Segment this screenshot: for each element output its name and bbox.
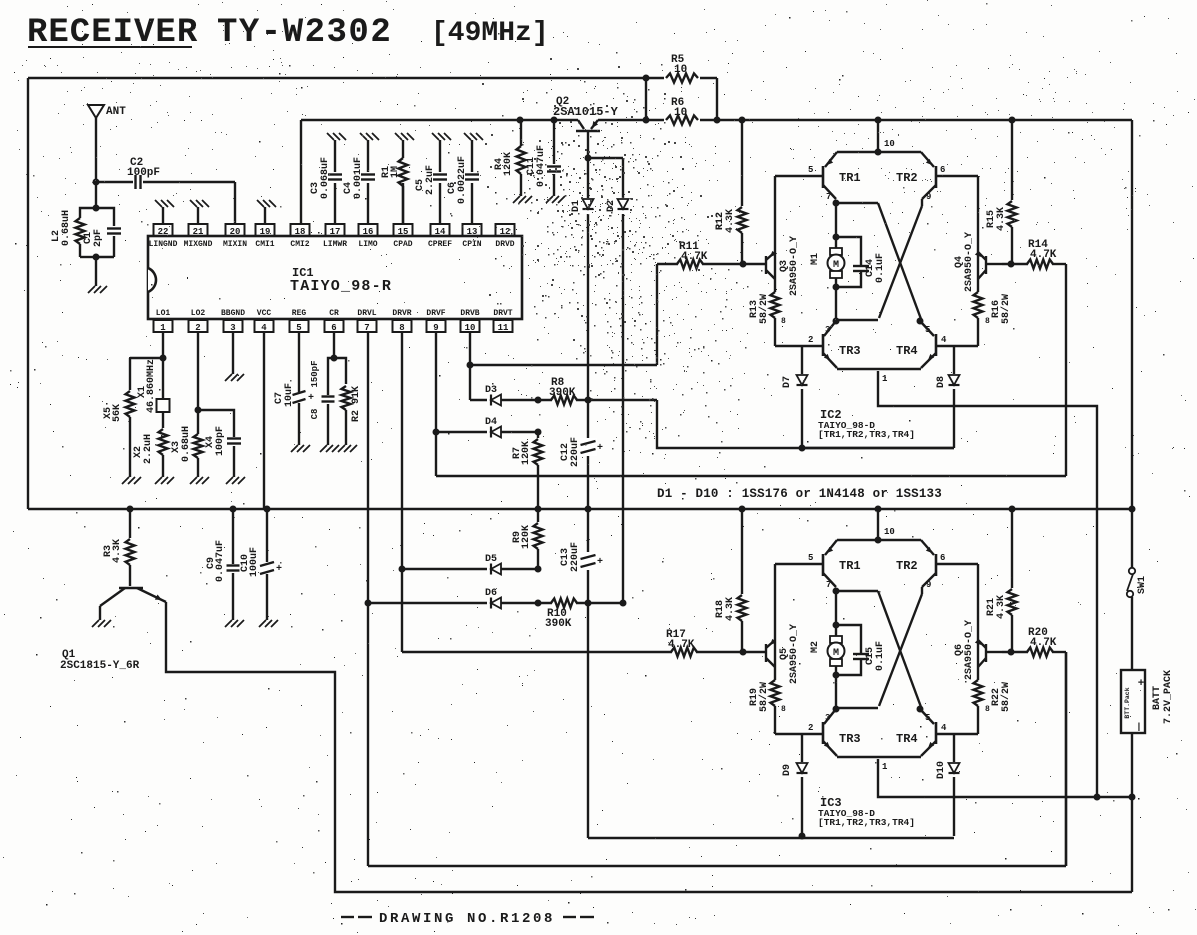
- svg-text:0.0022uF: 0.0022uF: [457, 156, 468, 204]
- svg-text:TY-W2302: TY-W2302: [217, 14, 392, 52]
- svg-text:D1 - D10 : 1SS176 or 1N4148 or: D1 - D10 : 1SS176 or 1N4148 or 1SS133: [657, 487, 942, 501]
- svg-text:2: 2: [195, 323, 200, 333]
- svg-text:58/2W: 58/2W: [758, 682, 770, 712]
- svg-text:VCC: VCC: [257, 309, 272, 318]
- svg-text:TR4: TR4: [896, 732, 918, 746]
- svg-text:BATT: BATT: [1152, 686, 1163, 710]
- svg-text:0.047uF: 0.047uF: [536, 145, 547, 187]
- svg-text:D3: D3: [485, 385, 497, 396]
- svg-text:D9: D9: [782, 764, 793, 776]
- svg-text:2: 2: [808, 335, 813, 345]
- svg-text:390K: 390K: [545, 618, 572, 630]
- svg-text:17: 17: [330, 227, 341, 237]
- svg-text:120K: 120K: [521, 525, 532, 549]
- svg-text:10: 10: [465, 323, 476, 333]
- svg-text:2SA950-O_Y: 2SA950-O_Y: [964, 620, 975, 680]
- svg-text:DRVT: DRVT: [493, 309, 512, 318]
- svg-text:4: 4: [261, 323, 267, 333]
- svg-text:4: 4: [941, 723, 947, 733]
- svg-text:CMI2: CMI2: [290, 240, 309, 249]
- svg-text:[TR1,TR2,TR3,TR4]: [TR1,TR2,TR3,TR4]: [818, 429, 915, 440]
- svg-text:TR1: TR1: [839, 559, 861, 573]
- svg-text:7.2V_PACK: 7.2V_PACK: [1163, 670, 1174, 724]
- svg-text:10: 10: [884, 527, 895, 537]
- svg-text:LINGND: LINGND: [149, 240, 178, 249]
- svg-text:TR2: TR2: [896, 559, 918, 573]
- svg-text:C8: C8: [310, 409, 320, 420]
- svg-text:D10: D10: [936, 761, 947, 779]
- svg-text:CPIN: CPIN: [462, 240, 481, 249]
- svg-text:CMI1: CMI1: [255, 240, 274, 249]
- svg-text:D4: D4: [485, 417, 497, 428]
- svg-text:4.3K: 4.3K: [725, 209, 736, 233]
- svg-text:4.3K: 4.3K: [725, 597, 736, 621]
- svg-text:4.7K: 4.7K: [1030, 249, 1057, 261]
- svg-text:2SA950-O_Y: 2SA950-O_Y: [789, 624, 800, 684]
- svg-text:M2: M2: [810, 641, 821, 653]
- svg-text:D1: D1: [571, 200, 582, 212]
- svg-text:R12: R12: [715, 212, 726, 230]
- svg-text:DRVF: DRVF: [426, 309, 445, 318]
- svg-text:9: 9: [926, 192, 931, 202]
- svg-text:DRVR: DRVR: [392, 309, 411, 318]
- svg-text:150pF: 150pF: [310, 360, 320, 387]
- svg-text:3: 3: [825, 713, 830, 723]
- svg-text:4.7K: 4.7K: [1030, 637, 1057, 649]
- svg-text:R2 91K: R2 91K: [351, 386, 362, 422]
- svg-text:58/2W: 58/2W: [1000, 294, 1012, 324]
- svg-text:[TR1,TR2,TR3,TR4]: [TR1,TR2,TR3,TR4]: [818, 817, 915, 828]
- svg-text:10: 10: [674, 64, 687, 76]
- svg-text:8: 8: [985, 317, 990, 326]
- svg-text:REG: REG: [292, 309, 307, 318]
- svg-text:CR: CR: [329, 309, 339, 318]
- svg-text:TR3: TR3: [839, 344, 861, 358]
- svg-text:|: |: [1136, 722, 1141, 732]
- svg-text:18: 18: [295, 227, 306, 237]
- svg-text:15: 15: [398, 227, 409, 237]
- svg-text:4.7K: 4.7K: [668, 639, 695, 651]
- svg-text:M1: M1: [810, 253, 821, 265]
- svg-text:2SA950-O_Y: 2SA950-O_Y: [964, 232, 975, 292]
- svg-text:2.2uF: 2.2uF: [425, 165, 436, 195]
- svg-text:1: 1: [882, 374, 888, 384]
- svg-text:22: 22: [158, 227, 169, 237]
- svg-text:TR3: TR3: [839, 732, 861, 746]
- svg-text:2: 2: [808, 723, 813, 733]
- svg-text:2pF: 2pF: [93, 229, 104, 247]
- svg-text:CPREF: CPREF: [428, 240, 452, 249]
- svg-text:0.68uH: 0.68uH: [181, 426, 192, 462]
- svg-text:8: 8: [781, 317, 786, 326]
- svg-text:5: 5: [296, 323, 301, 333]
- svg-text:4.3K: 4.3K: [112, 539, 123, 563]
- svg-text:220uF: 220uF: [570, 437, 581, 467]
- svg-text:+: +: [597, 443, 603, 454]
- svg-text:0.047uF: 0.047uF: [215, 540, 226, 582]
- svg-text:5: 5: [808, 553, 813, 563]
- svg-text:6: 6: [331, 323, 336, 333]
- svg-text:DRVL: DRVL: [357, 309, 376, 318]
- svg-text:7: 7: [826, 192, 831, 202]
- svg-text:5: 5: [925, 325, 930, 335]
- svg-text:21: 21: [193, 227, 204, 237]
- svg-text:10uF: 10uF: [284, 383, 295, 407]
- svg-text:58/2W: 58/2W: [1000, 682, 1012, 712]
- svg-text:2.2uH: 2.2uH: [143, 434, 154, 464]
- svg-text:TAIYO_98-R: TAIYO_98-R: [290, 278, 392, 295]
- svg-text:10: 10: [884, 139, 895, 149]
- svg-text:220uF: 220uF: [570, 542, 581, 572]
- svg-text:2SA950-O_Y: 2SA950-O_Y: [789, 236, 800, 296]
- svg-text:CPAD: CPAD: [393, 240, 412, 249]
- svg-text:5: 5: [925, 713, 930, 723]
- svg-text:BTT.Pack: BTT.Pack: [1124, 687, 1131, 718]
- svg-text:SW1: SW1: [1137, 576, 1148, 594]
- svg-text:MIXGND: MIXGND: [184, 240, 213, 249]
- svg-text:D5: D5: [485, 554, 497, 565]
- svg-text:5: 5: [808, 165, 813, 175]
- svg-text:0.001uF: 0.001uF: [353, 157, 364, 199]
- svg-text:D7: D7: [782, 376, 793, 388]
- svg-text:56K: 56K: [112, 404, 123, 422]
- svg-text:ANT: ANT: [106, 106, 126, 118]
- svg-text:7: 7: [364, 323, 369, 333]
- svg-text:1: 1: [882, 762, 888, 772]
- svg-text:LO2: LO2: [191, 309, 206, 318]
- svg-text:390K: 390K: [549, 387, 576, 399]
- svg-text:+: +: [597, 557, 603, 568]
- svg-text:LIMO: LIMO: [358, 240, 377, 249]
- svg-text:0.68uH: 0.68uH: [61, 210, 72, 246]
- svg-text:4: 4: [941, 335, 947, 345]
- svg-text:3: 3: [230, 323, 235, 333]
- svg-text:6: 6: [940, 165, 945, 175]
- svg-text:13: 13: [467, 227, 478, 237]
- svg-text:7: 7: [826, 580, 831, 590]
- svg-text:100pF: 100pF: [127, 167, 160, 179]
- svg-text:19: 19: [260, 227, 271, 237]
- svg-text:100pF: 100pF: [215, 426, 226, 456]
- svg-text:20: 20: [230, 227, 241, 237]
- svg-text:+: +: [276, 564, 282, 575]
- svg-text:9: 9: [926, 580, 931, 590]
- svg-text:8: 8: [781, 705, 786, 714]
- svg-text:2SC1815-Y_6R: 2SC1815-Y_6R: [60, 660, 140, 672]
- svg-text:58/2W: 58/2W: [758, 294, 770, 324]
- svg-text:8: 8: [985, 705, 990, 714]
- svg-text:TR2: TR2: [896, 171, 918, 185]
- svg-text:DRVB: DRVB: [460, 309, 479, 318]
- svg-text:14: 14: [435, 227, 446, 237]
- svg-text:0.068uF: 0.068uF: [320, 157, 331, 199]
- svg-text:11: 11: [498, 323, 509, 333]
- svg-text:1M: 1M: [390, 166, 401, 178]
- svg-text:1: 1: [160, 323, 166, 333]
- svg-text:LO1: LO1: [156, 309, 171, 318]
- svg-text:4.7K: 4.7K: [681, 251, 708, 263]
- svg-text:TR1: TR1: [839, 171, 861, 185]
- svg-text:DRAWING NO.R1208: DRAWING NO.R1208: [379, 911, 555, 927]
- svg-text:3: 3: [825, 325, 830, 335]
- svg-text:M: M: [833, 648, 839, 659]
- svg-text:8: 8: [399, 323, 404, 333]
- svg-text:D6: D6: [485, 588, 497, 599]
- svg-text:LIMWR: LIMWR: [323, 240, 347, 249]
- svg-text:12: 12: [500, 227, 511, 237]
- svg-text:DRVD: DRVD: [495, 240, 514, 249]
- svg-text:TR4: TR4: [896, 344, 918, 358]
- svg-text:M: M: [833, 260, 839, 271]
- svg-text:MIXIN: MIXIN: [223, 240, 247, 249]
- svg-text:+: +: [308, 393, 314, 404]
- svg-text:120K: 120K: [503, 152, 514, 176]
- svg-text:16: 16: [363, 227, 374, 237]
- svg-text:6: 6: [940, 553, 945, 563]
- svg-text:0.1uF: 0.1uF: [875, 641, 886, 671]
- svg-text:9: 9: [433, 323, 438, 333]
- svg-text:2SA1015-Y: 2SA1015-Y: [553, 105, 619, 119]
- svg-text:D8: D8: [936, 376, 947, 388]
- svg-text:+: +: [1138, 678, 1145, 690]
- svg-text:[49MHz]: [49MHz]: [431, 18, 549, 49]
- svg-text:46.860MHz: 46.860MHz: [146, 359, 157, 413]
- svg-text:BBGND: BBGND: [221, 309, 245, 318]
